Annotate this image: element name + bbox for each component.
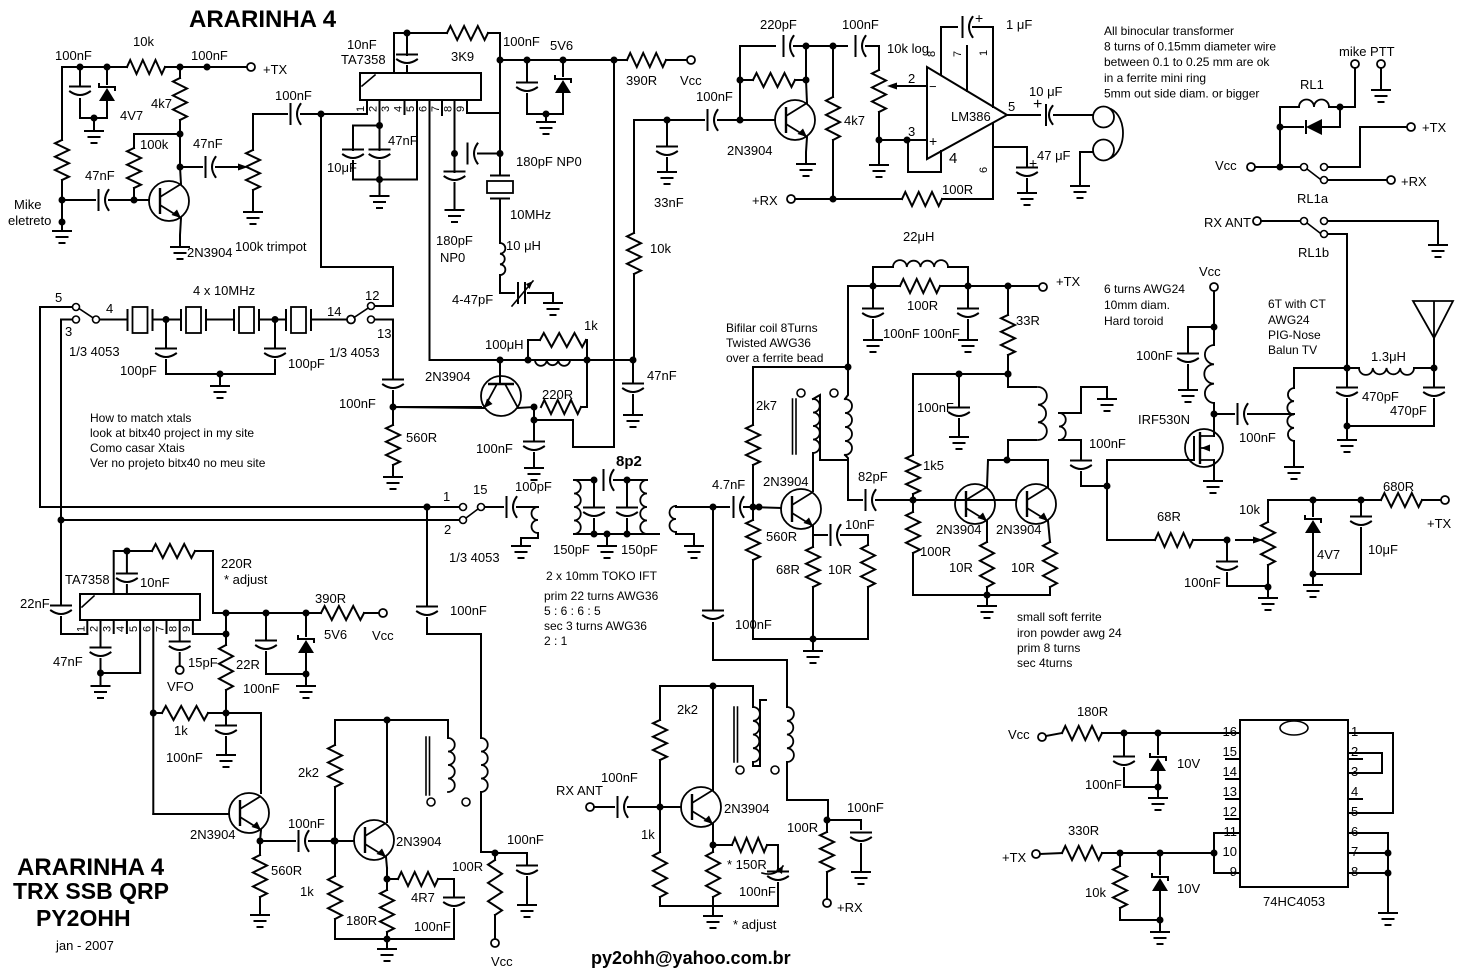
svg-text:9: 9 (1230, 864, 1237, 879)
switch 15 lever (466, 509, 478, 518)
wire node down pin9 (499, 60, 501, 113)
svg-text:2 x 10mm TOKO IFT: 2 x 10mm TOKO IFT (546, 569, 658, 583)
wire 15pF dn (179, 653, 181, 666)
crystal X1 10MHz (128, 309, 153, 331)
capacitor 100nF pa R (958, 309, 978, 318)
svg-text:1: 1 (978, 50, 990, 56)
svg-text:mike PTT: mike PTT (1339, 44, 1395, 59)
svg-text:10nF: 10nF (140, 575, 170, 590)
ground jack (1071, 186, 1089, 198)
node txmix base (331, 838, 338, 845)
wire cap d top (265, 613, 267, 639)
wire mosfet drain (1213, 414, 1215, 436)
node 10uF TX (1358, 497, 1365, 504)
wire to coupling cap (253, 113, 287, 115)
svg-text:2k2: 2k2 (677, 702, 698, 717)
node osc fb (404, 30, 411, 37)
wire cap vcc dn (1187, 365, 1189, 390)
node osc rail end (630, 357, 637, 364)
IC U4 74HC4053 body (1240, 720, 1348, 887)
svg-text:4 x 10MHz: 4 x 10MHz (193, 283, 255, 298)
node ant (1431, 365, 1438, 372)
wire 33R top (1007, 286, 1009, 315)
wire cap pa L bottom (872, 320, 874, 340)
U3 pin8 stub (179, 620, 181, 640)
svg-text:4k7: 4k7 (844, 113, 865, 128)
T1 winding left (813, 399, 820, 453)
wire trimpot rx out (767, 845, 778, 870)
switch flt throw 5 (73, 304, 80, 311)
svg-text:100nF: 100nF (191, 48, 228, 63)
transistor Q3 2N3904 (775, 100, 815, 140)
ground 47nF osc (624, 415, 642, 427)
resistor 560R bfo (253, 855, 267, 897)
wire tank gnd stub (606, 534, 608, 546)
svg-text:AWG24: AWG24 (1268, 313, 1310, 327)
wire osc out down (533, 407, 535, 420)
wire zener 5V6 bottom (562, 93, 564, 114)
wire 10uF TX dn (1313, 528, 1361, 574)
ground filter (211, 386, 229, 398)
wire mic input (62, 199, 95, 201)
wire vfo buffer path (426, 507, 428, 605)
wire choke cap (1188, 327, 1214, 352)
T1 left top jog (813, 395, 848, 460)
node rx out (824, 817, 831, 824)
svg-text:2: 2 (908, 71, 915, 86)
node 4V7 gnd (1310, 571, 1317, 578)
svg-text:over a ferrite bead: over a ferrite bead (726, 351, 823, 365)
svg-text:180R: 180R (346, 913, 377, 928)
wire Q5 collector (987, 460, 1007, 487)
svg-text:10R: 10R (1011, 560, 1035, 575)
svg-text:100nF: 100nF (842, 17, 879, 32)
U4 pin2-3 loop (1348, 753, 1382, 773)
ground rxout (852, 872, 870, 884)
mosfet Q7 IRF530N (1185, 429, 1223, 467)
svg-text:6 turns AWG24: 6 turns AWG24 (1104, 282, 1185, 296)
wire 47nF top TA1 (379, 126, 381, 151)
IFT3 core lines (426, 737, 430, 795)
svg-text:3: 3 (1351, 764, 1358, 779)
node osc out (531, 417, 538, 424)
T1 phase dot R (830, 389, 838, 397)
transistor Q4 2N3904 (781, 489, 821, 529)
node mike terminal (59, 197, 66, 204)
switch RL1b lever (1307, 223, 1320, 233)
node bfo rail b (263, 610, 270, 617)
node mic rail B (104, 64, 111, 71)
wire trimpot top (252, 114, 254, 150)
terminal Vcc 4053 (1038, 733, 1046, 741)
wire TX throw out (1328, 127, 1407, 167)
resistor 180R txmix (380, 890, 394, 932)
wire rail to 10k R1 (61, 67, 63, 140)
wire filter gnd rail (166, 373, 275, 375)
resistor 390R bfo (321, 606, 364, 620)
node gate bias (1104, 483, 1111, 490)
svg-text:10k log: 10k log (887, 41, 929, 56)
node pa bias (910, 497, 917, 504)
capacitor 10uF TA1 (343, 150, 363, 159)
svg-text:150pF: 150pF (621, 542, 658, 557)
ground pot drive (1259, 598, 1277, 610)
wire cap to txmix base (309, 840, 354, 842)
ground trimpot (244, 212, 262, 224)
ground PA (978, 606, 996, 618)
svg-text:10k: 10k (650, 241, 671, 256)
node Q4 base (750, 504, 757, 511)
wire rail 507 (40, 506, 459, 508)
wire 1k bfo right (208, 712, 226, 714)
svg-text:100nF: 100nF (847, 800, 884, 815)
wire Q3 collector (806, 80, 807, 103)
node lpf gnd (1344, 423, 1351, 430)
wire Q3 top (740, 45, 775, 47)
svg-text:390R: 390R (315, 591, 346, 606)
terminal +RX af (787, 195, 795, 203)
inductor 100uH (535, 360, 570, 366)
switch RL1b throw up (1321, 218, 1328, 225)
capacitor 100pF b (265, 349, 285, 358)
wire 560R osc dn (392, 465, 394, 477)
wire mix cap dn (526, 877, 528, 905)
wire 100R rx dn (826, 872, 828, 899)
switch RL1b pole (1301, 218, 1308, 225)
svg-text:Twisted AWG36: Twisted AWG36 (726, 336, 811, 350)
balun top (1294, 368, 1347, 388)
wire Vcc to pole (1255, 166, 1300, 168)
svg-text:47nF: 47nF (647, 368, 677, 383)
ground zener bfo (297, 686, 315, 698)
wire 100R bias dn (913, 553, 987, 595)
switch 15 throw 2 (460, 517, 467, 524)
wire filter left rail 3 (60, 320, 62, 521)
wire lpf out (1414, 367, 1434, 369)
wire 47nF dn (632, 395, 634, 415)
resistor 1k txmix (328, 876, 342, 919)
IFT1 primary (574, 480, 581, 534)
wire 10R bottom (867, 587, 869, 639)
wire 100R pa left (873, 285, 900, 287)
svg-text:33R: 33R (1016, 313, 1040, 328)
wire coil to trimmer (500, 275, 514, 293)
wire rail to 1k5 (912, 374, 914, 455)
svg-text:7: 7 (952, 51, 964, 57)
node pin3 gnd (876, 137, 883, 144)
IFT4 phase dot A (736, 766, 744, 774)
resistor 390R TX (627, 53, 666, 67)
ground lpf (1338, 440, 1356, 452)
wire zener b dn (1159, 891, 1161, 920)
wire RX throw out (1328, 179, 1387, 181)
wire pin2 to pin5 (101, 672, 141, 674)
wire bias to 100k (134, 134, 180, 148)
wire X4 out (311, 319, 347, 321)
ground 4V7 TX (1304, 585, 1322, 597)
wire mic Vcc rail (62, 66, 127, 68)
svg-text:1 μF: 1 μF (1006, 17, 1032, 32)
svg-text:82pF: 82pF (858, 469, 888, 484)
svg-text:sec 4turns: sec 4turns (1017, 656, 1072, 670)
U1 pin 8 stub (454, 100, 456, 154)
capacitor 220pF (784, 36, 794, 56)
wire cap gate2 top (1226, 540, 1228, 560)
wire 10uF to jack (1054, 114, 1093, 116)
svg-text:NP0: NP0 (440, 250, 465, 265)
svg-text:+TX: +TX (1056, 274, 1081, 289)
wire txmix coll (386, 720, 388, 822)
svg-text:15: 15 (1223, 744, 1237, 759)
svg-text:8 turns of 0.15mm diameter wir: 8 turns of 0.15mm diameter wire (1104, 40, 1276, 54)
node 220R left (531, 404, 538, 411)
svg-text:330R: 330R (1068, 823, 1099, 838)
resistor 68R (806, 547, 820, 587)
wire trimmer to gnd (528, 293, 553, 303)
node 5V6 rail C (560, 57, 567, 64)
svg-text:1/3 4053: 1/3 4053 (69, 344, 120, 359)
wire 5V6 gnd rail (527, 113, 563, 115)
LM386 pin7 line (966, 46, 968, 91)
LM386 pin6 line (992, 123, 994, 199)
svg-text:2k2: 2k2 (298, 765, 319, 780)
IFT4 core lines (734, 707, 738, 762)
svg-text:8: 8 (1351, 864, 1358, 879)
wire 470pF L top (1346, 368, 1348, 386)
svg-text:10nF: 10nF (347, 37, 377, 52)
node 5V6 rail D (611, 57, 618, 64)
capacitor 1uF (963, 17, 973, 37)
resistor 68R gate (1155, 533, 1193, 547)
capacitor 100nF drv (949, 408, 969, 417)
svg-text:look at bitx40 project in my s: look at bitx40 project in my site (90, 426, 254, 440)
svg-text:2: 2 (89, 626, 101, 632)
svg-text:jan - 2007: jan - 2007 (55, 938, 114, 953)
node mic rail D (204, 64, 211, 71)
capacitor 100nF gate2 (1217, 562, 1237, 571)
wire to +TX pa (968, 285, 1039, 287)
svg-text:10k: 10k (133, 34, 154, 49)
inductor 10uH (500, 243, 505, 275)
capacitor 100nF rxout (851, 833, 871, 842)
U1 pin1 slash (362, 75, 375, 86)
trimpot 100k body (246, 150, 260, 190)
svg-text:in a ferrite mini ring: in a ferrite mini ring (1104, 71, 1206, 85)
svg-text:100nF: 100nF (288, 816, 325, 831)
svg-text:100nF: 100nF (275, 88, 312, 103)
crystal X2 10MHz (181, 309, 206, 331)
wire 4R7 right (438, 879, 454, 896)
wire pot bottom (1267, 565, 1269, 586)
wire cap to xtal node (478, 153, 500, 155)
wire cap gate2 dn (1227, 573, 1268, 586)
zener D1 4V7 (99, 84, 115, 90)
IFT3 winding B (481, 738, 488, 792)
ground IFT2 sec (685, 546, 703, 558)
wire 82pF left (848, 499, 862, 501)
IFT4 B bottom (787, 762, 828, 820)
node zener bfo gnd (303, 671, 310, 678)
wire to LM386 pin3 (879, 139, 927, 141)
IFT4 A feed (713, 686, 753, 707)
ground zener b (1151, 932, 1169, 944)
terminal +TX pa (1039, 283, 1047, 291)
wire 220pF out (794, 45, 833, 47)
wire rx out cap (827, 820, 861, 829)
U4 pin 2 tick (1348, 758, 1362, 760)
svg-text:100nF: 100nF (339, 396, 376, 411)
resistor R4 100k (127, 148, 141, 188)
wire X3 to X4 (259, 319, 286, 321)
svg-text:74HC4053: 74HC4053 (1263, 894, 1325, 909)
wire pot arrow line (1236, 539, 1255, 541)
wire 560R bottom (752, 560, 754, 639)
IFT3 phase dot B (462, 798, 470, 806)
T1 right top (845, 367, 848, 399)
terminal Vcc pa (1210, 283, 1218, 291)
wire node to pin1 (321, 113, 367, 115)
wire 68R bottom (812, 587, 814, 639)
svg-text:2N3904: 2N3904 (724, 801, 770, 816)
wire xtal top lead (499, 154, 501, 176)
svg-text:5: 5 (55, 290, 62, 305)
wire Vcc pa dn (1213, 291, 1215, 345)
resistor 680R (1381, 493, 1422, 507)
node 10V b (1157, 850, 1164, 857)
resistor 100k af (753, 73, 795, 87)
trimpot wiper arrow (238, 164, 248, 171)
node 5V6 rail B (524, 57, 531, 64)
node mic rail C (177, 64, 184, 71)
wire Q3 emitter (806, 137, 807, 164)
wire 12 up (375, 305, 393, 307)
wire 10uF TX top (1360, 500, 1362, 515)
svg-text:10k: 10k (1085, 885, 1106, 900)
wire 10k 4053 top (1119, 853, 1121, 866)
terminal Vcc mix (491, 939, 499, 947)
wire cap to rxbase (628, 806, 681, 808)
svg-text:8p2: 8p2 (616, 453, 642, 470)
svg-text:+: + (929, 133, 937, 149)
svg-text:47nF: 47nF (388, 133, 418, 148)
node tank b (624, 531, 631, 538)
wire jack sleeve (1080, 152, 1093, 186)
svg-text:10MHz: 10MHz (510, 207, 551, 222)
wire pin3 gnd stub (878, 140, 880, 165)
svg-text:2N3904: 2N3904 (187, 245, 233, 260)
node 4k7 af top (830, 43, 837, 50)
capacitor 100nF out (1238, 404, 1248, 424)
wire 100pF a dn (165, 360, 167, 374)
wire RX ANT to pole (1261, 220, 1300, 222)
wire cap to base (109, 199, 149, 201)
svg-text:Vcc: Vcc (372, 628, 394, 643)
svg-text:2N3904: 2N3904 (763, 474, 809, 489)
IFT3 winding A (448, 738, 455, 792)
node tank gnd (604, 531, 611, 538)
U4 pin 15 tick (1226, 758, 1240, 760)
wire 47uF bottom (1026, 179, 1028, 193)
ground PTT (1372, 90, 1390, 102)
wire 22nF dn (61, 617, 87, 634)
svg-text:100nF: 100nF (507, 832, 544, 847)
svg-text:10R: 10R (949, 560, 973, 575)
resistor 100R rx (820, 832, 834, 872)
wire 1uF to pin1 (973, 26, 993, 28)
trimpot rx arrow (762, 866, 783, 874)
node RL1 left (1277, 124, 1284, 131)
wire trimpot rx lead (713, 844, 732, 846)
capacitor 100nF couple (291, 104, 301, 124)
svg-text:47 μF: 47 μF (1037, 148, 1071, 163)
wire cap rx e dn (777, 883, 779, 906)
resistor 1k osc (540, 333, 586, 347)
wire Q6 emitter (1048, 521, 1050, 542)
wire 10R pa1 dn (986, 587, 988, 595)
wire 10k osc bottom (633, 274, 635, 360)
svg-text:12: 12 (365, 288, 379, 303)
crystal 10MHz osc (490, 176, 510, 199)
wire Q3 base col (739, 46, 741, 120)
node txmix gnd (384, 936, 391, 943)
U1 pin 1 stub (366, 100, 368, 114)
svg-text:11: 11 (1224, 824, 1238, 839)
wire 150R rx top (712, 845, 714, 852)
capacitor 100nF bfo fb (216, 726, 236, 735)
wire supply to T1 (848, 286, 873, 367)
resistor 180R 4053 (1062, 726, 1102, 740)
svg-text:1.3μH: 1.3μH (1371, 349, 1406, 364)
capacitor 100nF vfo (417, 607, 437, 616)
wire 4R7 left (387, 878, 398, 880)
wire 100nF 4R7 dn (453, 909, 455, 939)
svg-text:7: 7 (430, 106, 442, 112)
U1 pin 4 stub (404, 100, 406, 114)
wire pot bottom (878, 112, 880, 140)
wire zener D1 bottom (94, 117, 107, 119)
wire X1 to X2 (153, 319, 182, 321)
wire rx coll line (712, 686, 714, 790)
wire 100k af right (795, 79, 806, 81)
IFT3 B bottom (481, 792, 492, 852)
capacitor C1 100nF (70, 87, 90, 96)
svg-text:680R: 680R (1383, 479, 1414, 494)
node rail 520 tap (58, 517, 65, 524)
wire 10nF bfo dn (126, 585, 128, 594)
wire 220R to rail (195, 551, 213, 613)
svg-text:1: 1 (355, 106, 367, 112)
svg-text:prim 8 turns: prim 8 turns (1017, 641, 1080, 655)
svg-text:2k7: 2k7 (756, 398, 777, 413)
wire RL1 to Vcc node (1279, 127, 1281, 167)
node bfo fb (223, 710, 230, 717)
svg-text:1k: 1k (300, 884, 314, 899)
wire mix out cap (495, 853, 527, 864)
node osc base (497, 357, 504, 364)
svg-text:4R7: 4R7 (411, 890, 435, 905)
U3 pin1 slash (82, 596, 94, 607)
node +RX af (830, 196, 837, 203)
wire 180pF shunt top (454, 154, 456, 173)
capacitor 100nF pa L (863, 309, 883, 318)
wire 1k riser L (528, 340, 540, 360)
wire drv gnd stub (812, 639, 814, 651)
wire 10k 4053 dn (1120, 908, 1160, 920)
wire 22uH left (873, 267, 893, 286)
capacitor 100nF osc (524, 442, 544, 451)
wire drv gnd rail (753, 638, 868, 640)
svg-text:* adjust: * adjust (224, 572, 268, 587)
